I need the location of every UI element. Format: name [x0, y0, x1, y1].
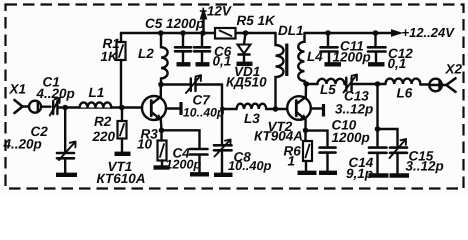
- svg-text:220: 220: [92, 129, 116, 144]
- svg-text:X2: X2: [445, 62, 463, 77]
- svg-text:+12..24V: +12..24V: [402, 25, 456, 40]
- svg-text:4..20p: 4..20p: [36, 86, 75, 101]
- svg-text:L1: L1: [89, 85, 105, 100]
- svg-text:9,1p: 9,1p: [346, 166, 373, 181]
- svg-text:+12V: +12V: [199, 4, 232, 19]
- svg-text:0,1: 0,1: [213, 54, 232, 69]
- svg-text:10: 10: [137, 137, 153, 152]
- svg-text:L4: L4: [307, 49, 323, 64]
- svg-text:1K: 1K: [101, 49, 120, 64]
- svg-text:1: 1: [288, 154, 296, 169]
- svg-text:1200p: 1200p: [166, 158, 202, 172]
- svg-text:1200p: 1200p: [333, 50, 371, 65]
- svg-text:КТ904А: КТ904А: [254, 129, 303, 144]
- svg-text:L6: L6: [397, 86, 413, 101]
- svg-text:1200p: 1200p: [332, 130, 370, 145]
- svg-text:R5 1K: R5 1K: [237, 13, 277, 28]
- svg-text:0,1: 0,1: [388, 56, 407, 71]
- svg-text:X1: X1: [9, 82, 27, 97]
- svg-text:10..40p: 10..40p: [183, 106, 225, 120]
- svg-text:КД510: КД510: [226, 75, 267, 90]
- svg-text:L5: L5: [320, 82, 336, 97]
- svg-text:3..12p: 3..12p: [406, 159, 444, 174]
- svg-text:3..12p: 3..12p: [335, 102, 373, 117]
- svg-text:DL1: DL1: [278, 23, 304, 38]
- svg-text:R2: R2: [94, 114, 112, 129]
- svg-text:4..20p: 4..20p: [3, 137, 42, 152]
- svg-text:КТ610А: КТ610А: [97, 171, 146, 186]
- svg-text:C5 1200p: C5 1200p: [145, 16, 204, 31]
- svg-text:10..40p: 10..40p: [228, 158, 272, 173]
- svg-text:L2: L2: [138, 46, 154, 61]
- svg-text:L3: L3: [244, 111, 260, 126]
